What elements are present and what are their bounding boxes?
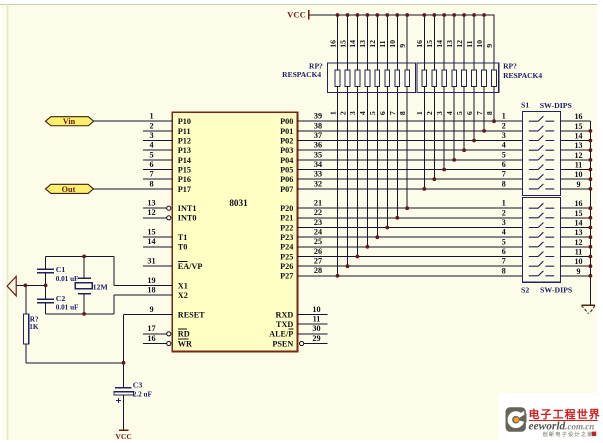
svg-text:P27: P27 xyxy=(280,272,293,281)
svg-text:6: 6 xyxy=(149,160,153,169)
svg-text:6: 6 xyxy=(502,160,506,169)
svg-text:4: 4 xyxy=(358,111,367,115)
svg-text:P00: P00 xyxy=(280,117,293,126)
svg-text:P15: P15 xyxy=(178,165,191,174)
svg-text:4: 4 xyxy=(149,141,153,150)
svg-text:P03: P03 xyxy=(280,146,293,155)
svg-text:P14: P14 xyxy=(178,156,191,165)
svg-text:12: 12 xyxy=(455,40,464,48)
svg-text:35: 35 xyxy=(314,150,322,159)
svg-text:SW-DIPS: SW-DIPS xyxy=(540,286,572,295)
svg-text:14: 14 xyxy=(575,219,583,228)
svg-text:INT0: INT0 xyxy=(178,214,197,223)
svg-text:TXD: TXD xyxy=(276,320,293,329)
svg-text:12: 12 xyxy=(575,151,583,160)
svg-text:11: 11 xyxy=(378,40,387,47)
svg-text:P26: P26 xyxy=(280,262,293,271)
svg-text:21: 21 xyxy=(314,199,322,208)
svg-text:14: 14 xyxy=(575,132,583,141)
svg-text:5: 5 xyxy=(368,111,377,115)
svg-text:2: 2 xyxy=(502,208,506,217)
svg-text:2: 2 xyxy=(338,111,347,115)
svg-text:P17: P17 xyxy=(178,185,191,194)
svg-text:P20: P20 xyxy=(280,204,293,213)
svg-text:32: 32 xyxy=(314,179,322,188)
svg-text:2.2 uF: 2.2 uF xyxy=(133,391,153,399)
svg-text:C1: C1 xyxy=(56,265,66,274)
svg-text:11: 11 xyxy=(465,40,474,47)
svg-text:eeworld.com.cn: eeworld.com.cn xyxy=(529,421,595,433)
svg-text:1: 1 xyxy=(328,111,337,115)
svg-text:Vin: Vin xyxy=(63,117,76,126)
svg-text:0.01 uF: 0.01 uF xyxy=(56,275,79,283)
svg-text:15: 15 xyxy=(147,228,155,237)
svg-text:电子工程世界: 电子工程世界 xyxy=(529,407,601,421)
svg-text:39: 39 xyxy=(314,112,322,121)
svg-text:31: 31 xyxy=(147,257,155,266)
svg-text:RXD: RXD xyxy=(276,310,294,319)
svg-text:C2: C2 xyxy=(56,294,66,303)
svg-text:1K: 1K xyxy=(29,323,39,331)
svg-text:11: 11 xyxy=(575,248,583,257)
svg-text:38: 38 xyxy=(314,121,322,130)
svg-text:C3: C3 xyxy=(133,381,143,390)
svg-text:12: 12 xyxy=(368,40,377,48)
svg-text:X2: X2 xyxy=(178,291,188,300)
svg-text:7: 7 xyxy=(502,170,506,179)
svg-text:RESPACK4: RESPACK4 xyxy=(503,71,542,80)
svg-text:RESPACK4: RESPACK4 xyxy=(282,70,321,79)
svg-text:13: 13 xyxy=(147,199,155,208)
svg-text:1: 1 xyxy=(502,112,506,121)
svg-text:T1: T1 xyxy=(178,233,188,242)
svg-text:8: 8 xyxy=(149,179,153,188)
svg-text:6: 6 xyxy=(465,111,474,115)
svg-text:13: 13 xyxy=(575,141,583,150)
svg-text:P05: P05 xyxy=(280,165,293,174)
svg-text:26: 26 xyxy=(314,247,322,256)
svg-text:P12: P12 xyxy=(178,136,191,145)
svg-text:2: 2 xyxy=(425,111,434,115)
svg-text:RESET: RESET xyxy=(178,310,205,319)
svg-text:17: 17 xyxy=(147,324,155,333)
svg-text:37: 37 xyxy=(314,131,322,140)
svg-text:10: 10 xyxy=(575,257,583,266)
svg-text:9: 9 xyxy=(485,44,494,48)
svg-text:11: 11 xyxy=(575,161,583,170)
svg-text:1: 1 xyxy=(502,199,506,208)
svg-text:25: 25 xyxy=(314,237,322,246)
svg-text:13: 13 xyxy=(575,228,583,237)
svg-text:16: 16 xyxy=(147,334,155,343)
svg-text:4: 4 xyxy=(502,228,506,237)
svg-text:24: 24 xyxy=(314,228,322,237)
svg-text:23: 23 xyxy=(314,218,322,227)
svg-text:P21: P21 xyxy=(280,214,293,223)
svg-text:3: 3 xyxy=(502,131,506,140)
svg-text:16: 16 xyxy=(328,40,337,48)
svg-text:8031: 8031 xyxy=(229,198,248,208)
svg-text:RP?: RP? xyxy=(503,62,517,71)
svg-text:5: 5 xyxy=(455,111,464,115)
svg-text:10: 10 xyxy=(388,40,397,48)
svg-text:4: 4 xyxy=(445,111,454,115)
svg-text:1: 1 xyxy=(415,111,424,115)
svg-text:ALE/P: ALE/P xyxy=(269,330,293,339)
svg-text:6: 6 xyxy=(502,247,506,256)
svg-text:15: 15 xyxy=(425,40,434,48)
svg-text:0.01 uF: 0.01 uF xyxy=(56,303,79,311)
svg-text:6: 6 xyxy=(378,111,387,115)
svg-text:7: 7 xyxy=(502,257,506,266)
svg-text:10: 10 xyxy=(475,40,484,48)
svg-text:P06: P06 xyxy=(280,175,293,184)
svg-text:11: 11 xyxy=(313,315,321,324)
svg-text:P10: P10 xyxy=(178,117,191,126)
svg-text:15: 15 xyxy=(575,122,583,131)
svg-text:3: 3 xyxy=(502,218,506,227)
svg-text:INT1: INT1 xyxy=(178,204,197,213)
svg-text:12M: 12M xyxy=(93,283,109,292)
svg-text:P23: P23 xyxy=(280,233,293,242)
svg-text:7: 7 xyxy=(388,111,397,115)
svg-text:8: 8 xyxy=(485,111,494,115)
svg-text:27: 27 xyxy=(314,257,322,266)
svg-text:WR: WR xyxy=(178,339,192,348)
svg-text:29: 29 xyxy=(312,334,320,343)
svg-text:9: 9 xyxy=(149,305,153,314)
svg-text:14: 14 xyxy=(435,40,444,48)
svg-text:5: 5 xyxy=(502,237,506,246)
svg-text:8: 8 xyxy=(502,179,506,188)
svg-text:12: 12 xyxy=(575,238,583,247)
svg-text:X1: X1 xyxy=(178,281,188,290)
svg-text:2: 2 xyxy=(149,121,153,130)
svg-text:16: 16 xyxy=(415,40,424,48)
svg-text:9: 9 xyxy=(577,180,581,189)
svg-text:5: 5 xyxy=(149,150,153,159)
svg-text:Out: Out xyxy=(62,185,76,194)
svg-text:15: 15 xyxy=(575,209,583,218)
svg-text:14: 14 xyxy=(147,237,155,246)
svg-text:9: 9 xyxy=(577,267,581,276)
svg-text:P04: P04 xyxy=(280,156,293,165)
svg-text:创新电子设计之家: 创新电子设计之家 xyxy=(542,430,594,438)
svg-text:7: 7 xyxy=(149,170,153,179)
svg-text:16: 16 xyxy=(575,112,583,121)
svg-text:12: 12 xyxy=(147,208,155,217)
svg-text:P24: P24 xyxy=(280,243,293,252)
svg-text:10: 10 xyxy=(312,305,320,314)
svg-text:16: 16 xyxy=(575,199,583,208)
svg-text:30: 30 xyxy=(312,324,320,333)
svg-text:3: 3 xyxy=(348,111,357,115)
svg-text:10: 10 xyxy=(575,170,583,179)
svg-text:3: 3 xyxy=(149,131,153,140)
svg-text:14: 14 xyxy=(348,40,357,48)
svg-text:36: 36 xyxy=(314,141,322,150)
svg-text:8: 8 xyxy=(502,266,506,275)
svg-text:PSEN: PSEN xyxy=(272,339,293,348)
svg-text:4: 4 xyxy=(502,141,506,150)
svg-text:34: 34 xyxy=(314,160,322,169)
svg-text:15: 15 xyxy=(338,40,347,48)
svg-text:T0: T0 xyxy=(178,243,188,252)
svg-text:P02: P02 xyxy=(280,136,293,145)
svg-text:28: 28 xyxy=(314,266,322,275)
svg-text:P13: P13 xyxy=(178,146,191,155)
svg-text:SW-DIPS: SW-DIPS xyxy=(540,101,572,110)
svg-text:9: 9 xyxy=(398,44,407,48)
svg-text:13: 13 xyxy=(358,40,367,48)
svg-text:3: 3 xyxy=(435,111,444,115)
svg-text:VCC: VCC xyxy=(115,432,131,441)
svg-text:EA/VP: EA/VP xyxy=(178,262,203,271)
svg-text:RD: RD xyxy=(178,330,190,339)
svg-text:18: 18 xyxy=(147,286,155,295)
svg-text:33: 33 xyxy=(314,170,322,179)
svg-text:P11: P11 xyxy=(178,127,191,136)
svg-text:P01: P01 xyxy=(280,127,293,136)
svg-text:2: 2 xyxy=(502,121,506,130)
svg-text:22: 22 xyxy=(314,208,322,217)
svg-text:P25: P25 xyxy=(280,252,293,261)
svg-text:13: 13 xyxy=(445,40,454,48)
svg-text:7: 7 xyxy=(475,111,484,115)
svg-text:5: 5 xyxy=(502,150,506,159)
svg-text:P16: P16 xyxy=(178,175,191,184)
svg-text:P22: P22 xyxy=(280,223,293,232)
svg-text:VCC: VCC xyxy=(287,9,306,19)
svg-text:S2: S2 xyxy=(521,285,529,294)
svg-text:19: 19 xyxy=(147,276,155,285)
svg-text:S1: S1 xyxy=(521,101,529,110)
svg-text:1: 1 xyxy=(149,112,153,121)
svg-text:8: 8 xyxy=(398,111,407,115)
svg-text:P07: P07 xyxy=(280,185,293,194)
